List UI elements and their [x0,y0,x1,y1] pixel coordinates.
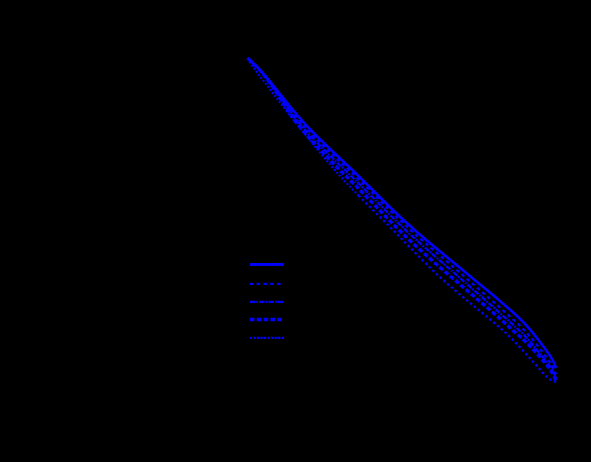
curve dashed (series 2) [248,58,557,374]
legend sample dotted [250,337,284,339]
curve dotted (series 5, upper part) [248,59,359,196]
curve thick dashed (series 4) [248,58,557,381]
curve solid (series 1) [248,58,557,368]
legend sample dashdot [250,301,284,303]
legend sample dashed [250,283,284,285]
legend sample thick dashed [250,318,284,321]
curve dashdot (series 3) [248,58,557,378]
legend sample solid [250,263,284,266]
curve dotted (series 5, lower part) [359,196,557,383]
